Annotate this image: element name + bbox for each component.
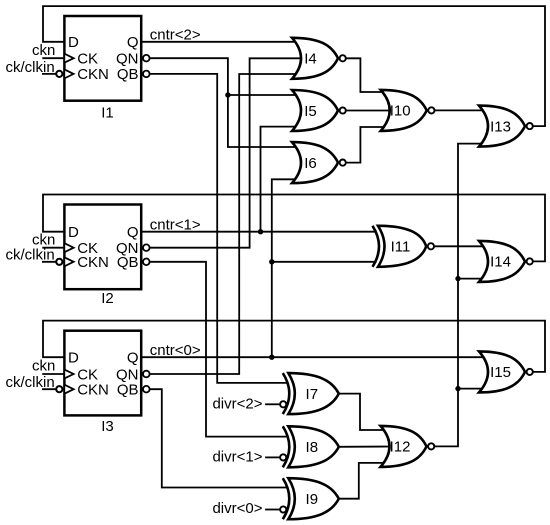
svg-text:ck/clkin: ck/clkin	[6, 374, 55, 391]
svg-text:Q: Q	[127, 224, 139, 241]
svg-text:divr<1>: divr<1>	[212, 449, 262, 466]
svg-text:I1: I1	[101, 104, 114, 121]
svg-text:Q: Q	[127, 34, 139, 51]
svg-text:QB: QB	[117, 382, 139, 399]
svg-text:cntr<2>: cntr<2>	[150, 26, 201, 43]
svg-text:I13: I13	[490, 118, 511, 135]
svg-text:ck/clkin: ck/clkin	[6, 247, 55, 264]
svg-text:D: D	[68, 34, 79, 51]
svg-text:I8: I8	[306, 439, 319, 456]
svg-text:Q: Q	[127, 350, 139, 367]
svg-text:I10: I10	[390, 103, 411, 120]
svg-text:I3: I3	[101, 418, 114, 435]
svg-text:D: D	[68, 350, 79, 367]
svg-text:cntr<0>: cntr<0>	[150, 342, 201, 359]
svg-text:divr<0>: divr<0>	[212, 500, 262, 517]
svg-text:I11: I11	[391, 239, 411, 256]
svg-text:QB: QB	[117, 66, 139, 83]
svg-text:I15: I15	[490, 364, 511, 381]
svg-text:D: D	[68, 224, 79, 241]
svg-text:ck/clkin: ck/clkin	[6, 59, 55, 76]
svg-text:QN: QN	[116, 51, 139, 68]
svg-text:cntr<1>: cntr<1>	[150, 216, 201, 233]
svg-text:ckn: ckn	[32, 42, 55, 59]
svg-text:I5: I5	[304, 103, 317, 120]
svg-text:I14: I14	[490, 254, 511, 271]
svg-text:I6: I6	[304, 155, 317, 172]
svg-text:CKN: CKN	[77, 66, 109, 83]
svg-text:CKN: CKN	[77, 254, 109, 271]
svg-text:I12: I12	[390, 439, 411, 456]
svg-text:I4: I4	[304, 51, 317, 68]
svg-text:I7: I7	[306, 386, 319, 403]
svg-text:ckn: ckn	[32, 358, 55, 375]
svg-text:QB: QB	[117, 254, 139, 271]
svg-text:divr<2>: divr<2>	[212, 395, 262, 412]
svg-text:CKN: CKN	[77, 382, 109, 399]
svg-text:CK: CK	[77, 51, 98, 68]
svg-text:I2: I2	[101, 290, 114, 307]
svg-text:I9: I9	[306, 491, 319, 508]
